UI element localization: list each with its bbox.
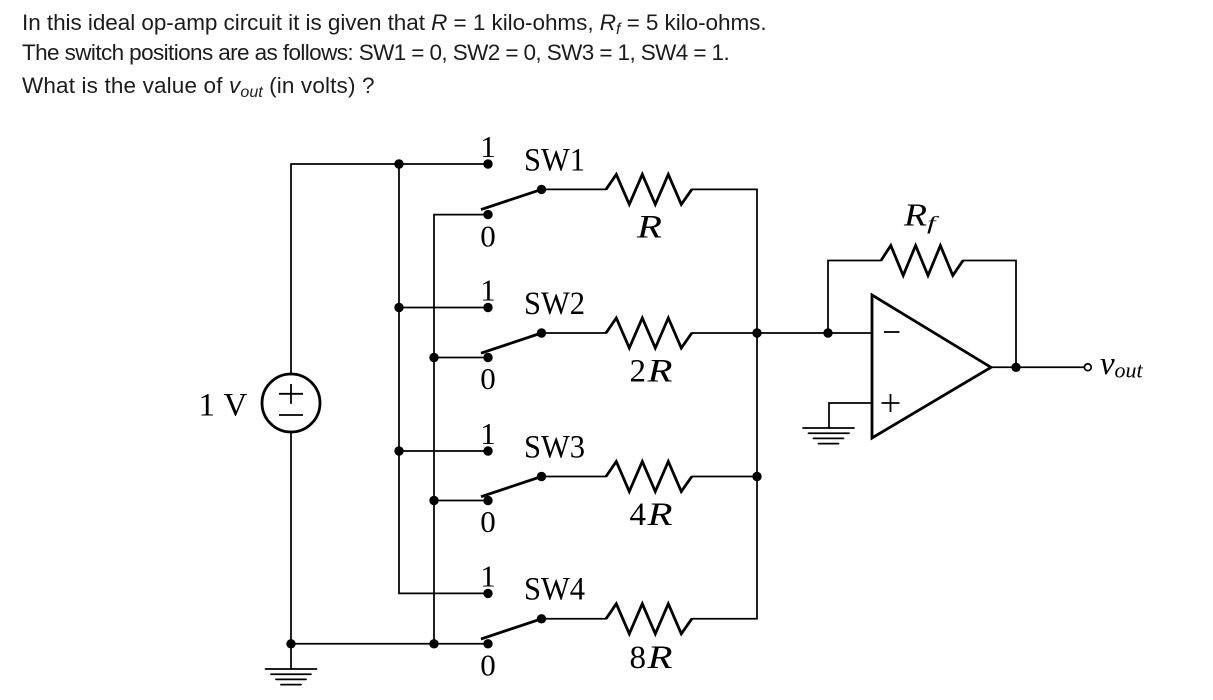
- svg-text:f: f: [927, 214, 940, 235]
- node dot bus C SW2: [429, 353, 438, 362]
- node dot bottom rail ground: [286, 639, 295, 648]
- output terminal open circle: [1084, 364, 1091, 371]
- voltage source V1 circle: [262, 374, 320, 432]
- node dot bus B SW2: [394, 303, 403, 312]
- node dot bus B SW3: [394, 446, 403, 455]
- node dot SW1 contact 1: [483, 159, 492, 168]
- wire SW1 pole to R: [542, 188, 607, 190]
- svg-text:8: 8: [630, 640, 647, 676]
- svg-text:0: 0: [480, 361, 496, 396]
- svg-text:R: R: [636, 210, 662, 246]
- node dot SW3 pole: [537, 472, 546, 481]
- resistor R: [606, 174, 692, 204]
- wire 4R to right bus: [692, 476, 757, 478]
- node dot SW4 pole: [537, 614, 546, 623]
- node dot SW3 contact 1: [483, 446, 492, 455]
- wire bottom rail: [291, 643, 488, 645]
- wire top rail: [291, 163, 488, 165]
- node dot bus C SW3: [429, 496, 438, 505]
- switch SW1 arm: [481, 189, 542, 209]
- svg-text:1: 1: [480, 416, 496, 451]
- ground at op-amp noninverting input: [803, 428, 854, 444]
- wire SW2 pole to 2R: [542, 332, 607, 334]
- node dot feedback tap: [823, 328, 832, 337]
- svg-text:R: R: [646, 497, 672, 533]
- svg-text:SW4: SW4: [524, 572, 585, 608]
- wire op-amp noninverting input to ground: [829, 403, 872, 428]
- svg-text:v: v: [1100, 346, 1115, 382]
- svg-text:2: 2: [630, 354, 647, 390]
- switch SW2 arm: [481, 333, 542, 353]
- svg-text:1: 1: [480, 273, 496, 308]
- wire SW3 contact 0 stub: [434, 500, 488, 502]
- wire source ground stub: [290, 644, 292, 669]
- resistor 8R: [606, 604, 692, 634]
- node dot bus C bottom: [429, 639, 438, 648]
- wire R to right bus: [692, 188, 757, 190]
- node dot SW2 pole: [537, 328, 546, 337]
- problem text line 3: [22, 75, 375, 105]
- svg-text:4: 4: [630, 497, 647, 533]
- resistor 4R: [606, 462, 692, 492]
- wire feedback left branch: [828, 261, 881, 334]
- wire bus C vertical from SW1 contact 0: [434, 215, 488, 644]
- wire op-amp output: [991, 366, 1084, 368]
- wire right summing bus: [756, 189, 758, 618]
- node dot SW4 contact 1: [483, 589, 492, 598]
- switch SW4 arm: [481, 619, 542, 639]
- ground at source: [266, 669, 317, 685]
- svg-text:1: 1: [480, 558, 496, 593]
- svg-text:1: 1: [199, 388, 216, 424]
- voltage source minus sign: [279, 414, 303, 416]
- wire SW3 contact 1 stub: [399, 450, 488, 452]
- node dot top rail bus B: [394, 159, 403, 168]
- svg-text:R: R: [646, 354, 672, 390]
- wire SW2 contact 1 stub: [399, 307, 488, 309]
- svg-text:SW3: SW3: [524, 430, 585, 466]
- svg-text:SW2: SW2: [524, 286, 585, 322]
- wire SW2 contact 0 stub: [434, 357, 488, 359]
- node dot SW2 contact 1: [483, 303, 492, 312]
- svg-text:0: 0: [480, 218, 496, 253]
- svg-text:R: R: [646, 640, 672, 676]
- svg-text:R: R: [903, 197, 928, 233]
- resistor 2R: [606, 318, 692, 348]
- svg-text:out: out: [1115, 358, 1144, 383]
- wire SW3 pole to 4R: [542, 476, 607, 478]
- wire 2R to right bus: [692, 332, 757, 334]
- voltage source plus sign: [279, 393, 303, 395]
- node dot output junction: [1011, 363, 1020, 372]
- node dot SW3 contact 0: [483, 496, 492, 505]
- svg-text:0: 0: [480, 648, 496, 683]
- wire bus B vertical with corner to SW4 contact 1: [399, 164, 488, 593]
- wire SW4 pole to 8R: [542, 618, 607, 620]
- problem text line 2: [22, 42, 729, 65]
- node dot right bus SW2 row: [752, 328, 761, 337]
- wire 8R to right bus: [692, 618, 757, 620]
- op-amp plus sign: [882, 402, 900, 404]
- wire source to bottom rail: [290, 432, 292, 644]
- svg-text:SW1: SW1: [524, 143, 585, 179]
- switch SW3 arm: [481, 477, 542, 497]
- problem text line 1: [22, 12, 767, 42]
- node dot SW1 pole: [537, 185, 546, 194]
- wire source to top rail: [290, 164, 292, 374]
- svg-text:0: 0: [480, 504, 496, 539]
- node dot right bus SW3 row: [752, 472, 761, 481]
- node dot SW4 contact 0: [483, 639, 492, 648]
- node dot SW2 contact 0: [483, 353, 492, 362]
- svg-text:1: 1: [480, 129, 496, 164]
- svg-text:V: V: [224, 388, 248, 424]
- op-amp minus sign: [884, 331, 900, 333]
- wire summing bus to op-amp inverting input: [757, 332, 872, 334]
- wire feedback right branch: [963, 261, 1016, 368]
- op-amp U1 triangle: [872, 295, 991, 438]
- resistor Rf: [881, 246, 963, 276]
- node dot SW1 contact 0: [483, 210, 492, 219]
